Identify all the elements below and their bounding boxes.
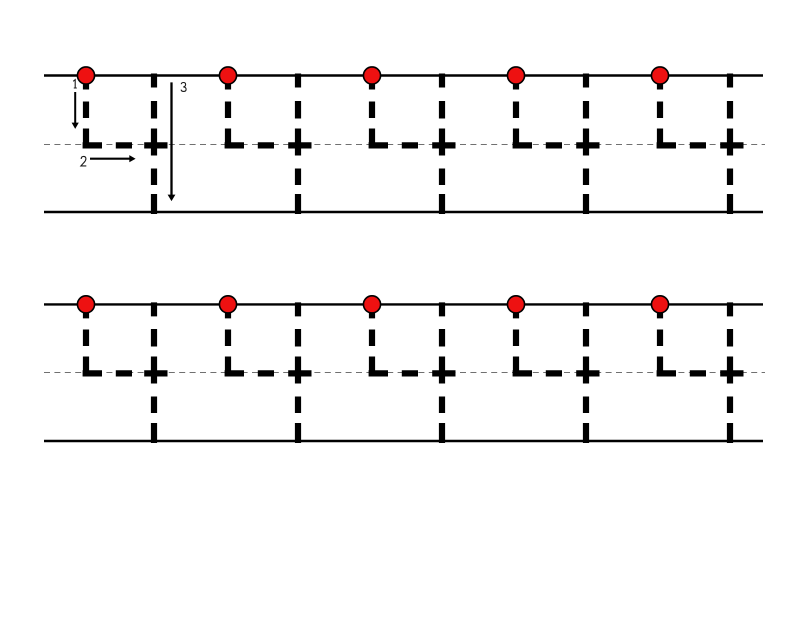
- red start dot, cell 2 (band 2): [219, 296, 236, 313]
- red start dot, cell 1 (band 1): [77, 67, 94, 84]
- red start dot, cell 1 (band 2): [77, 296, 94, 313]
- trace stroke 1: vertical dashes from dot to midline, cell 4 (band 2): [513, 304, 519, 376]
- stroke-order arrow 2 (rightward): [90, 158, 130, 160]
- stroke-order label 2: [81, 156, 86, 166]
- red start dot, cell 5 (band 2): [651, 296, 668, 313]
- trace stroke 2: horizontal dashes along midline, cell 5 (band 1): [657, 142, 744, 148]
- trace stroke 1: vertical dashes from dot to midline, cell 3 (band 1): [369, 76, 375, 148]
- trace stroke 2: horizontal dashes along midline, cell 1 (band 2): [83, 370, 168, 376]
- dashed cell divider line 1 (band 1): [151, 74, 157, 215]
- trace stroke 1: vertical dashes from dot to midline, cell 4 (band 1): [513, 76, 519, 148]
- dashed cell divider line 3 (band 2): [439, 302, 445, 443]
- red start dot, cell 2 (band 1): [219, 67, 236, 84]
- trace stroke 1: vertical dashes from dot to midline, cell 2 (band 1): [225, 76, 231, 148]
- stroke-order arrow 3 (long downward): [170, 82, 172, 195]
- dashed cell divider line 2 (band 1): [295, 74, 301, 215]
- red start dot, cell 3 (band 2): [363, 296, 380, 313]
- top writing line (band 1): [44, 74, 763, 76]
- trace stroke 1: vertical dashes from dot to midline, cell 1 (band 1): [83, 76, 89, 148]
- trace stroke 2: horizontal dashes along midline, cell 4 (band 2): [513, 370, 600, 376]
- stroke-order label 3: [181, 83, 186, 92]
- trace stroke 2: horizontal dashes along midline, cell 5 (band 2): [657, 370, 744, 376]
- dashed cell divider line 5 (band 1): [727, 74, 733, 215]
- red start dot, cell 4 (band 1): [507, 67, 524, 84]
- trace stroke 2: horizontal dashes along midline, cell 4 (band 1): [513, 142, 600, 148]
- bottom writing line (band 2): [44, 440, 763, 442]
- trace stroke 1: vertical dashes from dot to midline, cell 3 (band 2): [369, 304, 375, 376]
- red start dot, cell 3 (band 1): [363, 67, 380, 84]
- trace stroke 1: vertical dashes from dot to midline, cell 2 (band 2): [225, 304, 231, 376]
- trace stroke 2: horizontal dashes along midline, cell 2 (band 2): [225, 370, 312, 376]
- dashed midline guide (band 1): [44, 144, 765, 146]
- dashed cell divider line 2 (band 2): [295, 302, 301, 443]
- red start dot, cell 5 (band 1): [651, 67, 668, 84]
- dashed cell divider line 1 (band 2): [151, 302, 157, 443]
- top writing line (band 2): [44, 303, 763, 305]
- dashed cell divider line 5 (band 2): [727, 302, 733, 443]
- trace stroke 2: horizontal dashes along midline, cell 1 (band 1): [83, 142, 168, 148]
- trace stroke 1: vertical dashes from dot to midline, cell 1 (band 2): [83, 304, 89, 376]
- red start dot, cell 4 (band 2): [507, 296, 524, 313]
- stroke-order arrow 1 (downward): [74, 92, 76, 124]
- trace stroke 2: horizontal dashes along midline, cell 3 (band 1): [369, 142, 456, 148]
- trace stroke 2: horizontal dashes along midline, cell 2 (band 1): [225, 142, 312, 148]
- dashed cell divider line 3 (band 1): [439, 74, 445, 215]
- dashed cell divider line 4 (band 1): [583, 74, 589, 215]
- trace stroke 1: vertical dashes from dot to midline, cell 5 (band 2): [657, 304, 663, 376]
- trace stroke 2: horizontal dashes along midline, cell 3 (band 2): [369, 370, 456, 376]
- dashed cell divider line 4 (band 2): [583, 302, 589, 443]
- dashed midline guide (band 2): [44, 372, 765, 374]
- trace stroke 1: vertical dashes from dot to midline, cell 5 (band 1): [657, 76, 663, 148]
- bottom writing line (band 1): [44, 211, 763, 213]
- stroke-order label 1: [73, 80, 77, 88]
